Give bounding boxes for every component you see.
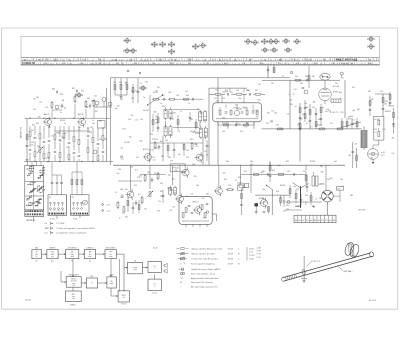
svg-text:2k2: 2k2 [90, 127, 93, 129]
svg-text:mix: mix [51, 256, 54, 258]
svg-text:220: 220 [186, 150, 189, 152]
svg-text:S Toets niet ingedrukt / non: S Toets niet ingedrukt / non enfonce FM/… [57, 227, 96, 230]
svg-text:220: 220 [214, 98, 217, 100]
svg-text:C41: C41 [271, 83, 274, 85]
svg-text:33k: 33k [305, 195, 308, 197]
svg-text:DEMOD: DEMOD [86, 247, 94, 249]
svg-text:100: 100 [236, 90, 239, 92]
svg-text:210: 210 [314, 63, 317, 65]
svg-text:NF-VORST: NF-VORST [106, 247, 117, 249]
svg-text:5p6: 5p6 [171, 118, 174, 120]
svg-text:1n: 1n [143, 97, 145, 99]
svg-text:470: 470 [46, 158, 49, 160]
svg-text:END: END [110, 275, 115, 277]
svg-text:33k: 33k [392, 137, 395, 139]
svg-text:10n: 10n [131, 98, 134, 100]
svg-text:1n: 1n [160, 103, 162, 105]
svg-text:33k: 33k [130, 166, 133, 168]
svg-text:170: 170 [296, 63, 299, 65]
svg-text:2k2: 2k2 [186, 196, 189, 198]
svg-text:12k: 12k [204, 151, 207, 153]
svg-text:2k2: 2k2 [64, 133, 67, 135]
svg-text:Trimmer min. 3-30 pF waarden: Trimmer min. 3-30 pF waarden [191, 258, 218, 260]
svg-text:470: 470 [276, 125, 279, 127]
svg-text:8p2: 8p2 [223, 118, 226, 120]
svg-text:220: 220 [316, 124, 319, 126]
svg-text:⇅: ⇅ [180, 281, 182, 284]
svg-text:10n: 10n [117, 173, 120, 175]
svg-text:BC148: BC148 [149, 150, 154, 152]
svg-text:R12: R12 [150, 134, 153, 136]
svg-text:6k8: 6k8 [312, 76, 315, 78]
svg-text:150: 150 [175, 170, 178, 172]
svg-text:8p2: 8p2 [357, 109, 360, 111]
svg-text:190: 190 [188, 63, 191, 65]
svg-text:470: 470 [258, 100, 261, 102]
svg-text:33k: 33k [335, 83, 338, 85]
svg-text:6k8: 6k8 [154, 112, 157, 114]
svg-text:47k: 47k [131, 115, 134, 117]
svg-text:12k: 12k [33, 98, 36, 100]
svg-text:47k: 47k [139, 175, 142, 177]
svg-text:BC148: BC148 [236, 109, 241, 111]
svg-text:6k8: 6k8 [226, 161, 229, 163]
svg-text:2k2: 2k2 [89, 132, 92, 134]
svg-text:C41: C41 [160, 196, 163, 198]
svg-text:1k2: 1k2 [51, 136, 54, 138]
svg-text:230: 230 [116, 63, 119, 65]
svg-text:1n: 1n [340, 98, 342, 100]
svg-text:33k: 33k [300, 83, 303, 85]
svg-text:81: 81 [84, 59, 86, 61]
svg-text:R12: R12 [290, 104, 293, 106]
svg-text:P PO/FS: P PO/FS [57, 223, 66, 225]
svg-text:2n2: 2n2 [135, 91, 138, 93]
svg-text:100: 100 [119, 82, 122, 84]
svg-text:1k2: 1k2 [66, 147, 69, 149]
svg-text:C41: C41 [145, 82, 148, 84]
svg-text:100: 100 [250, 164, 253, 166]
svg-text:230: 230 [260, 63, 263, 65]
svg-text:Un: Un [45, 223, 47, 225]
svg-text:22.88: 22.88 [257, 251, 261, 253]
svg-text:BC148: BC148 [280, 185, 285, 187]
svg-text:210 W: 210 W [228, 248, 234, 250]
svg-text:6k8: 6k8 [368, 91, 371, 93]
svg-text:B2: B2 [338, 188, 340, 190]
svg-text:m 40: m 40 [381, 152, 385, 154]
svg-text:1n: 1n [59, 141, 61, 143]
svg-text:BC148: BC148 [375, 119, 380, 121]
svg-text:1k2: 1k2 [312, 107, 315, 109]
svg-text:62: 62 [24, 59, 26, 61]
svg-text:MULT 4407 A12: MULT 4407 A12 [336, 57, 357, 61]
svg-text:100: 100 [222, 91, 225, 93]
svg-text:AERIAL 300: AERIAL 300 [20, 126, 23, 138]
svg-text:8p2: 8p2 [87, 98, 90, 100]
svg-text:220: 220 [168, 175, 171, 177]
svg-text:0.1: 0.1 [295, 106, 298, 108]
svg-text:104: 104 [54, 59, 57, 61]
svg-text:5p6: 5p6 [223, 173, 226, 175]
svg-text:68: 68 [219, 59, 221, 61]
svg-text:2k2: 2k2 [261, 198, 264, 200]
svg-text:100: 100 [274, 113, 277, 115]
svg-text:5p6: 5p6 [278, 165, 281, 167]
svg-text:33k: 33k [246, 90, 249, 92]
svg-text:150: 150 [31, 145, 34, 147]
svg-text:150: 150 [340, 179, 343, 181]
svg-text:8p2: 8p2 [261, 172, 264, 174]
svg-text:4n7: 4n7 [254, 204, 257, 206]
svg-text:4n7: 4n7 [95, 111, 98, 113]
svg-text:210: 210 [152, 63, 155, 65]
svg-text:10n: 10n [286, 205, 289, 207]
svg-text:C41: C41 [155, 91, 158, 93]
svg-text:12k: 12k [391, 153, 394, 155]
svg-text:33k: 33k [238, 177, 241, 179]
svg-text:12k: 12k [45, 107, 48, 109]
svg-text:6k8: 6k8 [120, 189, 123, 191]
svg-text:47k: 47k [154, 173, 157, 175]
svg-text:1: 1 [154, 268, 155, 270]
svg-text:4n7: 4n7 [178, 154, 181, 156]
svg-text:2n2: 2n2 [283, 211, 286, 213]
svg-text:BC148: BC148 [124, 142, 129, 144]
svg-text:100: 100 [192, 164, 195, 166]
svg-text:100: 100 [190, 119, 193, 121]
svg-text:S3: S3 [72, 197, 74, 199]
svg-text:74: 74 [204, 59, 206, 61]
svg-text:BC148: BC148 [170, 113, 175, 115]
svg-text:0.1: 0.1 [342, 78, 344, 80]
svg-text:12k: 12k [258, 84, 261, 86]
svg-text:1k2: 1k2 [330, 123, 333, 125]
svg-text:R12: R12 [222, 123, 225, 125]
svg-text:47k: 47k [272, 170, 275, 172]
svg-text:12k: 12k [228, 185, 231, 187]
svg-text:AF127: AF127 [143, 148, 148, 151]
svg-text:4n7: 4n7 [135, 170, 138, 172]
svg-text:1n: 1n [322, 107, 324, 109]
svg-text:4n7: 4n7 [310, 126, 313, 128]
svg-text:470: 470 [289, 100, 292, 102]
svg-text:= 4,5: = 4,5 [106, 211, 110, 213]
svg-text:S2: S2 [49, 197, 51, 199]
svg-text:2n2: 2n2 [135, 120, 138, 122]
svg-text:220: 220 [287, 171, 290, 173]
svg-text:C41: C41 [348, 155, 351, 157]
svg-text:C41: C41 [185, 91, 188, 93]
svg-text:6k8: 6k8 [350, 195, 353, 197]
svg-text:4n7: 4n7 [155, 119, 158, 121]
svg-text:100: 100 [155, 122, 158, 124]
svg-text:B4: B4 [89, 261, 91, 263]
svg-text:0.1: 0.1 [293, 93, 295, 95]
svg-text:AF125: AF125 [44, 113, 50, 116]
svg-text:R12: R12 [190, 139, 193, 141]
svg-text:100: 100 [168, 157, 171, 159]
svg-text:33k: 33k [157, 210, 160, 212]
svg-text:22.88: 22.88 [257, 247, 261, 249]
svg-text:R12: R12 [312, 206, 315, 208]
svg-text:8p2: 8p2 [122, 213, 125, 215]
svg-text:150: 150 [230, 92, 233, 94]
svg-text:1n: 1n [235, 180, 237, 182]
svg-text:68: 68 [174, 59, 176, 61]
svg-text:1n: 1n [180, 111, 182, 113]
svg-text:BC148: BC148 [60, 120, 65, 122]
svg-text:1n: 1n [78, 129, 80, 131]
svg-text:220: 220 [302, 114, 305, 116]
svg-text:8p2: 8p2 [140, 141, 143, 143]
svg-text:100: 100 [222, 131, 225, 133]
svg-text:210 W: 210 W [228, 263, 234, 265]
svg-text:220: 220 [152, 139, 155, 141]
svg-text:C41: C41 [153, 160, 156, 162]
svg-text:R12: R12 [286, 161, 289, 163]
svg-text:6k8: 6k8 [371, 99, 374, 101]
svg-text:5p6: 5p6 [244, 107, 247, 109]
svg-text:100: 100 [155, 116, 158, 118]
svg-text:12k: 12k [380, 91, 383, 93]
svg-text:R12: R12 [160, 191, 163, 193]
svg-text:0.1: 0.1 [115, 192, 118, 194]
svg-text:12k: 12k [177, 131, 180, 133]
svg-text:C41: C41 [388, 111, 391, 113]
svg-text:2.2-6.8: 2.2-6.8 [249, 255, 255, 257]
svg-text:2k2: 2k2 [255, 90, 258, 92]
svg-text:1 2 3 4 5 6 7: 1 2 3 4 5 6 7 [337, 63, 350, 65]
svg-text:BC148: BC148 [236, 124, 241, 126]
svg-text:0.1: 0.1 [306, 123, 308, 125]
svg-text:5p6: 5p6 [225, 91, 228, 93]
svg-text:test: test [45, 232, 49, 235]
svg-text:10n: 10n [293, 186, 296, 188]
svg-text:10n: 10n [264, 201, 267, 203]
svg-text:NT 12: NT 12 [121, 304, 126, 306]
svg-text:1n: 1n [119, 217, 121, 219]
svg-text:1n: 1n [188, 103, 190, 105]
svg-text:470: 470 [296, 189, 299, 191]
svg-text:2k2: 2k2 [31, 130, 34, 132]
svg-text:12k: 12k [190, 193, 193, 195]
svg-text:12k: 12k [155, 139, 158, 141]
svg-text:210 W: 210 W [228, 253, 234, 255]
svg-text:1k5: 1k5 [168, 92, 171, 94]
svg-text:8p2: 8p2 [353, 110, 356, 112]
svg-text:6k8: 6k8 [252, 110, 255, 112]
svg-text:33k: 33k [267, 113, 270, 115]
svg-text:5p6: 5p6 [115, 108, 118, 110]
svg-text:6k8: 6k8 [161, 156, 164, 158]
svg-text:470: 470 [134, 185, 137, 187]
svg-text:54 60 66 72: 54 60 66 72 [22, 62, 35, 65]
svg-text:GANG: GANG [295, 205, 301, 208]
svg-text:12k: 12k [206, 155, 209, 157]
svg-text:10n: 10n [92, 123, 95, 125]
svg-text:2n2: 2n2 [165, 140, 168, 142]
svg-text:104: 104 [114, 59, 117, 61]
svg-text:⏎: ⏎ [180, 262, 182, 265]
svg-text:Gelijkrichter germ. diode - AA: Gelijkrichter germ. diode - AA119 [191, 268, 221, 271]
svg-text:33k: 33k [36, 97, 39, 99]
svg-text:220: 220 [392, 126, 395, 128]
svg-text:220: 220 [131, 91, 134, 93]
svg-text:0.1: 0.1 [138, 194, 141, 196]
svg-text:47k: 47k [38, 117, 41, 119]
svg-text:R12: R12 [123, 129, 126, 131]
svg-text:TM 7/16: TM 7/16 [358, 210, 366, 212]
svg-text:8p2: 8p2 [276, 191, 279, 193]
svg-text:2k2: 2k2 [270, 120, 273, 122]
svg-text:210: 210 [170, 63, 173, 65]
svg-text:B 250 C75: B 250 C75 [330, 112, 339, 114]
svg-text:Oha/H: Oha/H [25, 300, 32, 302]
svg-text:12k: 12k [125, 189, 128, 191]
svg-text:amp: amp [71, 256, 74, 258]
svg-text:TASTATUR: TASTATUR [26, 219, 36, 222]
svg-text:ang: ang [134, 269, 137, 271]
svg-text:104: 104 [159, 59, 162, 61]
svg-text:230: 230 [44, 63, 47, 65]
svg-text:0.1: 0.1 [375, 132, 377, 134]
svg-text:B9 1 PS: B9 1 PS [369, 300, 377, 302]
svg-text:47k: 47k [240, 131, 243, 133]
svg-text:4n7: 4n7 [136, 157, 139, 159]
svg-text:10n: 10n [75, 94, 78, 96]
svg-text:8p2: 8p2 [170, 189, 173, 191]
svg-text:2k2: 2k2 [327, 179, 330, 181]
svg-text:ZF-VERST: ZF-VERST [68, 247, 78, 249]
svg-text:33k: 33k [238, 98, 241, 100]
svg-text:150: 150 [328, 111, 331, 113]
svg-text:21.40: 21.40 [257, 257, 261, 259]
svg-text:470: 470 [279, 129, 282, 131]
svg-text:220: 220 [235, 105, 238, 107]
svg-text:220: 220 [58, 132, 61, 134]
svg-text:R12: R12 [32, 125, 35, 127]
svg-text:5p6: 5p6 [300, 118, 303, 120]
svg-text:210: 210 [278, 63, 281, 65]
svg-text:end: end [110, 283, 113, 285]
svg-text:AM: AM [35, 246, 38, 249]
svg-text:BC148: BC148 [143, 110, 148, 112]
svg-text:250: 250 [224, 63, 227, 65]
svg-text:BC148: BC148 [333, 92, 338, 94]
svg-text:2k2: 2k2 [157, 87, 160, 89]
svg-text:33k: 33k [305, 76, 308, 78]
svg-text:81: 81 [294, 59, 296, 61]
svg-text:↓: ↓ [180, 286, 181, 289]
svg-text:100: 100 [176, 95, 179, 97]
svg-text:210: 210 [62, 63, 65, 65]
svg-text:22.88: 22.88 [249, 259, 254, 261]
svg-text:19.95: 19.95 [257, 254, 261, 256]
svg-text:190: 190 [98, 63, 101, 65]
svg-text:81: 81 [249, 59, 251, 61]
svg-text:96: 96 [99, 59, 101, 61]
svg-text:amp: amp [109, 256, 112, 258]
svg-text:1n: 1n [289, 94, 291, 96]
svg-text:B1: B1 [36, 261, 38, 263]
svg-text:12k: 12k [355, 144, 358, 146]
svg-text:Weerstand 5% tolerantie: Weerstand 5% tolerantie [191, 281, 214, 284]
svg-text:88: 88 [279, 59, 281, 61]
svg-text:1k2: 1k2 [121, 148, 124, 150]
svg-text:Kernen spoelen afregeling: Kernen spoelen afregeling [191, 263, 214, 265]
svg-text:6k8: 6k8 [246, 123, 249, 125]
svg-text:LP1173: LP1173 [192, 201, 198, 203]
svg-text:B2 a: B2 a [51, 261, 54, 263]
svg-text:1k2: 1k2 [244, 171, 247, 173]
svg-text:74: 74 [144, 59, 146, 61]
svg-text:BC148: BC148 [310, 161, 315, 163]
svg-text:6k8: 6k8 [224, 179, 227, 181]
svg-text:AF126: AF126 [78, 113, 84, 116]
svg-text:460: 460 [162, 106, 165, 108]
svg-text:47k: 47k [297, 125, 300, 127]
svg-text:33k: 33k [125, 216, 128, 218]
svg-text:2k2: 2k2 [204, 132, 207, 134]
svg-text:250: 250 [368, 63, 371, 65]
svg-text:220: 220 [330, 178, 333, 180]
svg-text:8p2: 8p2 [339, 92, 342, 94]
svg-text:R12: R12 [36, 123, 39, 125]
svg-text:230: 230 [134, 63, 137, 65]
svg-text:1n: 1n [140, 83, 142, 85]
svg-text:2k2: 2k2 [295, 76, 298, 78]
svg-text:170: 170 [242, 63, 245, 65]
svg-text:0.1: 0.1 [60, 112, 62, 114]
svg-text:104: 104 [129, 59, 132, 61]
svg-text:Opbouw spoelen 460 kc/s per se: Opbouw spoelen 460 kc/s per serie [191, 248, 223, 250]
svg-text:Elco's met polariteit - let op: Elco's met polariteit - let op [191, 272, 216, 275]
svg-text:1n: 1n [125, 83, 127, 85]
svg-text:220: 220 [172, 206, 175, 208]
svg-text:6k8: 6k8 [62, 137, 65, 139]
svg-text:In ingedrukt / enfonce / gedr: In ingedrukt / enfonce / gedrueckt [57, 232, 87, 235]
svg-text:BC148: BC148 [195, 133, 200, 135]
svg-text:470: 470 [113, 82, 116, 84]
svg-text:150: 150 [319, 125, 322, 127]
svg-text:150: 150 [271, 111, 274, 113]
svg-text:470: 470 [352, 123, 355, 125]
svg-text:33k: 33k [99, 120, 102, 122]
svg-text:190: 190 [80, 63, 83, 65]
svg-text:(MX RAL): (MX RAL) [344, 270, 353, 273]
svg-text:1n: 1n [245, 126, 247, 128]
svg-text:kc: kc [36, 256, 38, 258]
svg-text:RATIO-DET: RATIO-DET [69, 274, 80, 277]
svg-text:45 PF 1 G: 45 PF 1 G [311, 261, 321, 263]
svg-text:C41: C41 [383, 129, 386, 131]
svg-text:47k: 47k [121, 195, 124, 197]
svg-text:210 W: 210 W [228, 258, 234, 260]
svg-text:81: 81 [324, 59, 326, 61]
svg-text:u: u [238, 258, 239, 260]
svg-text:220: 220 [215, 90, 218, 92]
svg-text:C41: C41 [94, 96, 97, 98]
svg-text:57: 57 [309, 59, 311, 61]
svg-text:96: 96 [189, 59, 191, 61]
svg-text:R12: R12 [319, 184, 322, 186]
svg-text:33k: 33k [62, 100, 65, 102]
svg-text:33k: 33k [37, 146, 40, 148]
svg-text:0.1: 0.1 [352, 120, 354, 122]
svg-text:6k8: 6k8 [250, 161, 253, 163]
svg-text:6k8: 6k8 [196, 185, 199, 187]
